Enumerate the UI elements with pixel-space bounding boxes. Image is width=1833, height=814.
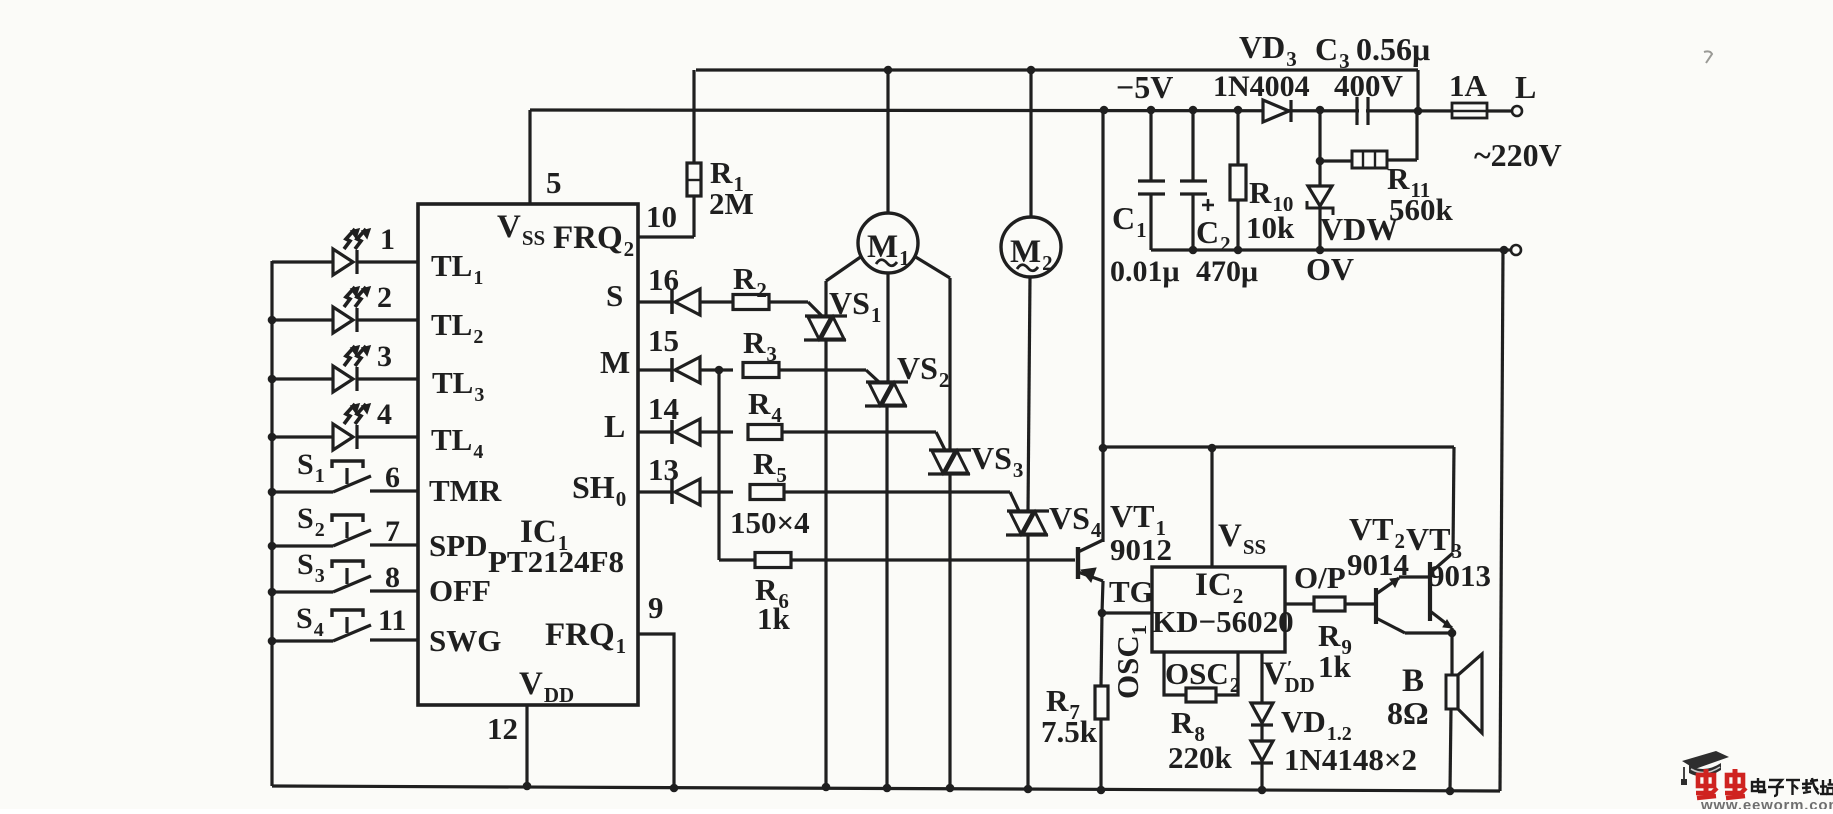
svg-text:2: 2 bbox=[377, 281, 392, 314]
svg-text:FRQ2: FRQ2 bbox=[553, 220, 634, 261]
svg-text:400V: 400V bbox=[1334, 68, 1404, 103]
svg-text:6: 6 bbox=[385, 461, 400, 494]
svg-text:560k: 560k bbox=[1389, 192, 1454, 227]
svg-text:OV: OV bbox=[1306, 251, 1354, 287]
svg-text:220k: 220k bbox=[1168, 740, 1233, 775]
svg-text:SPD: SPD bbox=[429, 528, 488, 563]
svg-text:L: L bbox=[604, 408, 625, 444]
svg-text:4: 4 bbox=[377, 398, 392, 431]
svg-text:470μ: 470μ bbox=[1196, 255, 1258, 288]
svg-text:14: 14 bbox=[648, 391, 679, 426]
svg-text:O/P: O/P bbox=[1294, 560, 1346, 595]
svg-text:5: 5 bbox=[546, 165, 562, 200]
svg-text:TG: TG bbox=[1109, 574, 1154, 609]
svg-text:−5V: −5V bbox=[1116, 69, 1173, 105]
svg-text:9: 9 bbox=[648, 590, 664, 625]
svg-text:PT2124F8: PT2124F8 bbox=[488, 544, 624, 579]
svg-text:10: 10 bbox=[646, 199, 677, 234]
svg-text:TMR: TMR bbox=[429, 473, 502, 508]
svg-text:2M: 2M bbox=[709, 186, 754, 221]
svg-text:SWG: SWG bbox=[429, 623, 501, 658]
svg-text:KD−56020: KD−56020 bbox=[1152, 604, 1294, 639]
svg-text:S: S bbox=[606, 278, 623, 313]
svg-text:10k: 10k bbox=[1246, 210, 1295, 245]
svg-text:1N4004: 1N4004 bbox=[1213, 70, 1310, 103]
svg-text:OFF: OFF bbox=[429, 573, 491, 608]
svg-text:B: B bbox=[1402, 663, 1424, 699]
svg-text:VDW: VDW bbox=[1320, 211, 1398, 247]
svg-text:1: 1 bbox=[380, 223, 395, 256]
svg-text:9014: 9014 bbox=[1347, 547, 1409, 582]
svg-text:1N4148×2: 1N4148×2 bbox=[1284, 742, 1417, 777]
svg-text:1A: 1A bbox=[1449, 68, 1488, 103]
svg-text:150×4: 150×4 bbox=[730, 505, 810, 540]
svg-text:9012: 9012 bbox=[1110, 532, 1172, 567]
svg-text:1k: 1k bbox=[1318, 649, 1352, 684]
svg-text:12: 12 bbox=[487, 711, 518, 746]
svg-text:15: 15 bbox=[648, 323, 679, 358]
svg-text:9013: 9013 bbox=[1429, 558, 1491, 593]
svg-text:M: M bbox=[600, 344, 630, 380]
svg-text:1k: 1k bbox=[757, 601, 791, 636]
svg-text:OSC1: OSC1 bbox=[1110, 625, 1151, 699]
svg-text:16: 16 bbox=[648, 262, 679, 297]
svg-text:L: L bbox=[1515, 69, 1536, 105]
svg-text:8: 8 bbox=[385, 561, 400, 594]
svg-text:~220V: ~220V bbox=[1474, 137, 1562, 173]
svg-text:13: 13 bbox=[648, 452, 679, 487]
svg-text:0.01μ: 0.01μ bbox=[1110, 255, 1180, 288]
svg-text:FRQ1: FRQ1 bbox=[545, 617, 626, 658]
svg-text:7.5k: 7.5k bbox=[1041, 714, 1098, 749]
svg-text:0.56μ: 0.56μ bbox=[1356, 31, 1430, 67]
svg-text:3: 3 bbox=[377, 340, 392, 373]
svg-text:7: 7 bbox=[385, 515, 400, 548]
svg-text:11: 11 bbox=[378, 604, 406, 637]
svg-text:8Ω: 8Ω bbox=[1387, 695, 1429, 731]
svg-text:www.eeworm.com: www.eeworm.com bbox=[1700, 797, 1833, 809]
